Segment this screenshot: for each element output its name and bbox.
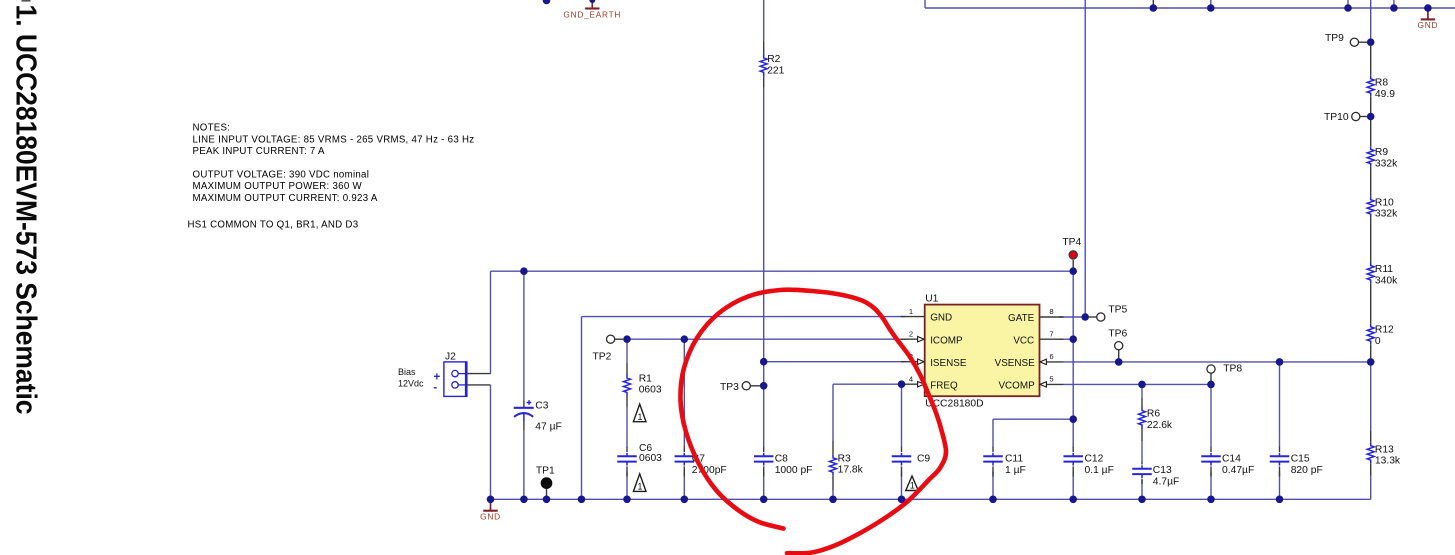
ground symbol GND top right (1418, 8, 1439, 30)
note-1 triangle below R1 (633, 404, 646, 422)
svg-text:TP8: TP8 (1223, 364, 1242, 375)
wire: stub up from top rail (1393, 0, 1395, 8)
svg-text:MAXIMUM OUTPUT CURRENT: 0.923: MAXIMUM OUTPUT CURRENT: 0.923 A (193, 193, 378, 204)
wire: top ground rail (925, 7, 1455, 9)
svg-text:0603: 0603 (639, 385, 662, 396)
svg-text:4: 4 (909, 374, 913, 383)
capacitor C15 (1270, 447, 1323, 477)
svg-text:5: 5 (1049, 374, 1053, 383)
svg-text:340k: 340k (1375, 275, 1398, 286)
svg-text:LINE INPUT VOLTAGE: 85 VRMS -: LINE INPUT VOLTAGE: 85 VRMS - 265 VRMS, … (193, 134, 475, 145)
svg-text:17.8k: 17.8k (838, 465, 864, 476)
U1 pin 2 ICOMP (901, 338, 918, 340)
wire: right chain top (through rail, no junction) (1370, 0, 1372, 42)
svg-text:ISENSE: ISENSE (930, 358, 967, 369)
svg-text:VCOMP: VCOMP (998, 381, 1035, 392)
resistor R9 (1367, 146, 1398, 169)
wire: R3 column (832, 384, 834, 441)
wire: GND net vertical (581, 317, 583, 500)
svg-text:R13: R13 (1375, 444, 1394, 455)
svg-text:820 pF: 820 pF (1291, 465, 1323, 476)
svg-text:2700pF: 2700pF (692, 465, 727, 476)
svg-text:1000 pF: 1000 pF (775, 465, 813, 476)
wire: chain leads (black) (1370, 46, 1372, 76)
wire: J2 minus vertical down to ground rail (490, 385, 492, 499)
capacitor C9 (892, 447, 931, 477)
svg-text:R8: R8 (1375, 78, 1388, 89)
test point TP3 (720, 382, 760, 393)
U1 pin 4 FREQ (901, 383, 918, 385)
svg-text:OUTPUT VOLTAGE: 390 VDC nomina: OUTPUT VOLTAGE: 390 VDC nominal (193, 169, 370, 180)
wire: stub up from top rail (black) at node (1152, 0, 1154, 6)
svg-text:1. UCC28180EVM-573 Schematic: 1. UCC28180EVM-573 Schematic (10, 5, 42, 415)
wire: pin5 VCOMP horizontal (1064, 383, 1212, 385)
svg-text:47 µF: 47 µF (535, 421, 562, 432)
capacitor C14 (1201, 447, 1254, 477)
capacitor C6 (617, 443, 662, 477)
wire: top rail left corner going up (924, 0, 926, 8)
wire: bottom ground rail (491, 498, 1371, 500)
svg-text:R3: R3 (838, 453, 851, 464)
wire: pin3 ISENSE horizontal (764, 361, 906, 363)
ground symbol GND bottom left (480, 499, 501, 521)
junction dot: top edge partial (543, 0, 551, 4)
svg-text:6: 6 (1049, 352, 1053, 361)
svg-text:VSENSE: VSENSE (995, 358, 1035, 369)
resistor R13 (1367, 443, 1401, 467)
svg-text:0: 0 (1375, 336, 1381, 347)
svg-text:8: 8 (1049, 307, 1053, 316)
junction dots: VSENSE (1115, 358, 1123, 366)
junction dots: ISENSE/TP3 (760, 358, 768, 366)
svg-text:12Vdc: 12Vdc (398, 378, 424, 388)
svg-text:GATE: GATE (1008, 313, 1035, 324)
connector J2 (398, 351, 467, 396)
svg-text:TP6: TP6 (1108, 329, 1127, 340)
wire: C9 column (901, 384, 903, 446)
wire: pin6 VSENSE horizontal (1064, 361, 1371, 363)
capacitor C7 (675, 447, 727, 477)
wire: C11 branch up and over to VCC column (992, 419, 994, 446)
svg-text:22.6k: 22.6k (1147, 420, 1173, 431)
svg-text:R10: R10 (1375, 197, 1394, 208)
svg-text:49.9: 49.9 (1375, 89, 1395, 100)
svg-text:GND: GND (1418, 20, 1439, 30)
svg-text:GND: GND (930, 313, 952, 324)
wire: VCC from chip (1059, 338, 1073, 340)
svg-text:PEAK INPUT CURRENT: 7 A: PEAK INPUT CURRENT: 7 A (193, 146, 325, 157)
svg-text:TP3: TP3 (720, 382, 739, 393)
notes text block (188, 123, 475, 231)
note-1 triangle below C9 (906, 476, 919, 491)
U1 pin 6 VSENSE (1046, 361, 1063, 363)
wire: stub up from top rail (1210, 0, 1212, 8)
ground symbol GND_EARTH (563, 0, 621, 19)
test point TP2 (593, 335, 624, 362)
svg-text:C12: C12 (1085, 454, 1104, 465)
resistor R12 (1367, 324, 1394, 347)
svg-text:R12: R12 (1375, 325, 1394, 336)
svg-text:TP2: TP2 (593, 351, 612, 362)
wire: C3 column (523, 271, 525, 400)
svg-text:C13: C13 (1153, 465, 1172, 476)
resistor R1 (624, 363, 662, 408)
test point TP6 (1108, 329, 1127, 362)
svg-text:U1: U1 (925, 294, 938, 305)
svg-text:VCC: VCC (1013, 335, 1034, 346)
svg-text:R2: R2 (767, 54, 780, 65)
junction dots: FREQ/VCOMP (898, 380, 906, 388)
svg-text:0603: 0603 (639, 453, 662, 464)
svg-text:13.3k: 13.3k (1375, 456, 1401, 467)
svg-text:1 µF: 1 µF (1005, 465, 1026, 476)
test point TP4 (1062, 237, 1081, 259)
U1 pin 1 GND (901, 316, 925, 318)
U1 pin 8 GATE (1040, 316, 1064, 318)
svg-text:221: 221 (767, 65, 784, 76)
U1 pin 5 VCOMP (1046, 383, 1063, 385)
wire: J2 plus vertical (490, 271, 492, 373)
svg-text:C9: C9 (917, 454, 930, 465)
svg-text:1: 1 (638, 482, 643, 492)
junction dots: bottom rail (487, 496, 495, 504)
svg-text:1: 1 (638, 412, 643, 422)
wire: pin2 ICOMP horizontal (627, 338, 906, 340)
svg-text:TP9: TP9 (1325, 33, 1344, 44)
test point TP10 (1324, 112, 1367, 123)
svg-text:C8: C8 (775, 454, 788, 465)
junction dot: C11 branch (1069, 415, 1077, 423)
svg-text:MAXIMUM OUTPUT POWER: 360 W: MAXIMUM OUTPUT POWER: 360 W (193, 181, 363, 192)
svg-text:TP4: TP4 (1062, 237, 1081, 248)
wire: chain R13 to bottom rail corner (1370, 476, 1372, 500)
junction dots: top rail (1150, 4, 1158, 12)
test point TP9 (1325, 33, 1367, 46)
wire: TP4 net horizontal (491, 270, 1074, 272)
wire: GATE from chip to TP5 (1059, 316, 1085, 318)
svg-text:Bias: Bias (398, 367, 416, 377)
wire: chain blue VSENSE node to R13 (1370, 362, 1372, 431)
svg-text:TP1: TP1 (536, 466, 555, 477)
junction dots: TP4 net (520, 267, 528, 275)
wire: pin1 GND horizontal (582, 316, 907, 318)
svg-text:C14: C14 (1222, 454, 1241, 465)
svg-text:J2: J2 (445, 351, 456, 362)
svg-text:2: 2 (909, 329, 913, 338)
svg-text:0.47µF: 0.47µF (1222, 465, 1254, 476)
junction dots: ICOMP (623, 335, 631, 343)
junction dots: chain (1367, 38, 1375, 46)
wire: TP8/C14 column (1210, 384, 1212, 446)
wire: pin4 FREQ horizontal (833, 383, 906, 385)
wire: stub up from top rail (1347, 0, 1349, 8)
test point TP1 (536, 466, 555, 500)
svg-text:7: 7 (1049, 329, 1053, 338)
wire: J2 pin leads (black) (466, 373, 490, 375)
capacitor C11 (983, 447, 1026, 477)
wire: R2 column top (763, 0, 765, 42)
resistor R11 (1367, 263, 1398, 287)
svg-text:R11: R11 (1375, 264, 1393, 275)
svg-text:4.7µF: 4.7µF (1153, 476, 1180, 487)
capacitor C13 (1132, 462, 1179, 488)
svg-text:1: 1 (909, 307, 913, 316)
svg-text:FREQ: FREQ (930, 380, 958, 391)
capacitor C12 (1063, 447, 1113, 477)
svg-text:HS1 COMMON TO Q1, BR1, AND D3: HS1 COMMON TO Q1, BR1, AND D3 (188, 219, 359, 230)
svg-text:ICOMP: ICOMP (930, 335, 963, 346)
resistor R8 (1367, 76, 1395, 100)
svg-text:C15: C15 (1291, 454, 1310, 465)
note-1 triangle below C6 (633, 474, 646, 492)
svg-text:R9: R9 (1375, 147, 1388, 158)
svg-text:GND: GND (480, 512, 501, 522)
top-left partial text sliver (22, 0, 31, 2)
svg-text:1: 1 (910, 481, 915, 491)
svg-text:NOTES:: NOTES: (193, 123, 231, 134)
wire: R2 to ISENSE node (763, 88, 765, 362)
wire: VCC/C12 column (1072, 271, 1074, 446)
wire: C15 column (1279, 362, 1281, 447)
capacitor C8 (754, 447, 813, 477)
test point TP5 (1089, 304, 1128, 321)
svg-text:332k: 332k (1375, 209, 1398, 220)
svg-text:R6: R6 (1147, 409, 1160, 420)
svg-text:GND_EARTH: GND_EARTH (563, 9, 621, 19)
U1 pin 7 VCC (1040, 338, 1064, 340)
svg-text:332k: 332k (1375, 158, 1398, 169)
svg-text:TP5: TP5 (1108, 304, 1127, 315)
wire: TP4 stub (1072, 260, 1074, 271)
U1 pin 3 ISENSE (901, 361, 918, 363)
svg-text:TP10: TP10 (1324, 112, 1349, 123)
wire: C7 column (683, 339, 685, 446)
test point TP8 (1207, 364, 1242, 385)
wire: GATE vertical line from top (1084, 0, 1086, 317)
svg-text:C11: C11 (1005, 454, 1023, 465)
resistor R3 (830, 441, 864, 490)
svg-text:-: - (433, 382, 437, 394)
wire: R6/C13 column (1141, 384, 1143, 398)
svg-text:0.1 µF: 0.1 µF (1085, 465, 1114, 476)
wire: ISENSE node down through TP3 to C8 (763, 362, 765, 447)
capacitor C3 (polarized) (514, 400, 562, 432)
red hand-drawn annotation circle (680, 290, 946, 554)
resistor R6 (1139, 398, 1173, 441)
svg-text:C3: C3 (535, 400, 548, 411)
junction dots: GATE/VCC (1081, 313, 1089, 321)
op-amp/PFC controller U1 UCC28180D (901, 294, 1064, 410)
svg-text:R1: R1 (639, 374, 652, 385)
resistor R10 (1367, 197, 1398, 220)
resistor R2 (760, 42, 784, 88)
wire: R1/C6 column (626, 339, 628, 362)
